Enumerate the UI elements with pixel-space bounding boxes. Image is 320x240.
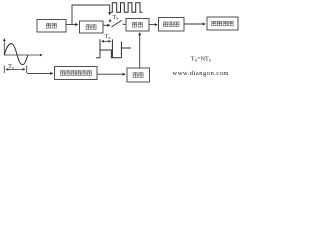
block 分频 (frequency divider) [80,21,104,33]
dimension arrows Tx on gate waveform [102,40,111,42]
wire sine signal to 放大整形电路 with arrow [27,72,53,74]
wire 计数器 to 译码显示 with arrow [184,23,205,25]
wire 放大整形电路 to 门控 with arrow [97,73,125,75]
block 门控 (gate control) [127,68,150,82]
sine wave (signal under test) [4,44,28,65]
block 放大整形电路 (amplify and shape circuit) [55,67,98,80]
block 晶振 (crystal oscillator) [37,20,66,33]
wire 分频 to switch with arrow [103,24,110,26]
svg-text:www.diangon.com: www.diangon.com [173,70,230,77]
input sine wave axes [4,54,42,56]
wire 主门 to 计数器 with arrow [149,24,157,26]
waveform Ts pulse train [111,3,143,13]
switch blade (selector) [112,20,122,27]
block 计数器 (counter) [159,18,185,32]
svg-text:Tx=NTs: Tx=NTs [191,56,211,64]
dimension ticks Tx under sine [4,66,26,74]
wire 晶振 to 分频 with arrow [66,24,78,26]
arrow from Ts label to switch blade [109,20,111,22]
waveform gate signal Tx [96,39,131,58]
svg-text:Tx: Tx [8,64,15,70]
svg-text:Tx: Tx [105,34,112,40]
dimension arrows Tx under sine [6,68,25,70]
svg-text:Ts: Ts [113,15,119,22]
block 主门 (main gate) [126,19,149,32]
block 译码显示 (decode display) [207,17,238,30]
wire top rail from junction to Ts arrow (down into switch area) [72,5,110,24]
wire 门控 up to 主门 control input with arrow [139,33,141,68]
wire switch contact into 主门 [123,23,127,25]
